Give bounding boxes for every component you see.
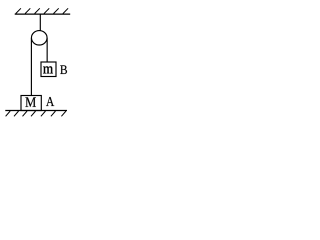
ceiling hatch 1 bbox=[16, 8, 21, 13]
ground hatch 3 bbox=[23, 111, 28, 116]
ground hatch 1 bbox=[6, 111, 11, 116]
right rope bbox=[46, 38, 48, 62]
ground hatch 4 bbox=[31, 111, 36, 116]
ceiling hatch 3 bbox=[35, 8, 40, 13]
label m bbox=[43, 66, 53, 73]
ground hatch 2 bbox=[14, 111, 19, 116]
label M bbox=[25, 97, 36, 106]
ceiling hatch 4 bbox=[44, 8, 49, 13]
left rope bbox=[30, 38, 32, 96]
ground hatch 5 bbox=[41, 111, 46, 116]
label A bbox=[46, 97, 54, 106]
box M bbox=[21, 96, 41, 111]
ceiling hatch 5 bbox=[54, 8, 59, 13]
ground line bbox=[5, 110, 67, 112]
box m bbox=[41, 62, 56, 77]
ceiling hatch 6 bbox=[63, 8, 68, 13]
ground hatch 6 bbox=[51, 111, 56, 116]
ceiling hatch 2 bbox=[25, 8, 30, 13]
ceiling line bbox=[15, 13, 70, 15]
label B bbox=[60, 65, 67, 74]
support rod bbox=[39, 14, 41, 39]
ground hatch 7 bbox=[61, 111, 66, 116]
pulley wheel bbox=[31, 31, 47, 45]
